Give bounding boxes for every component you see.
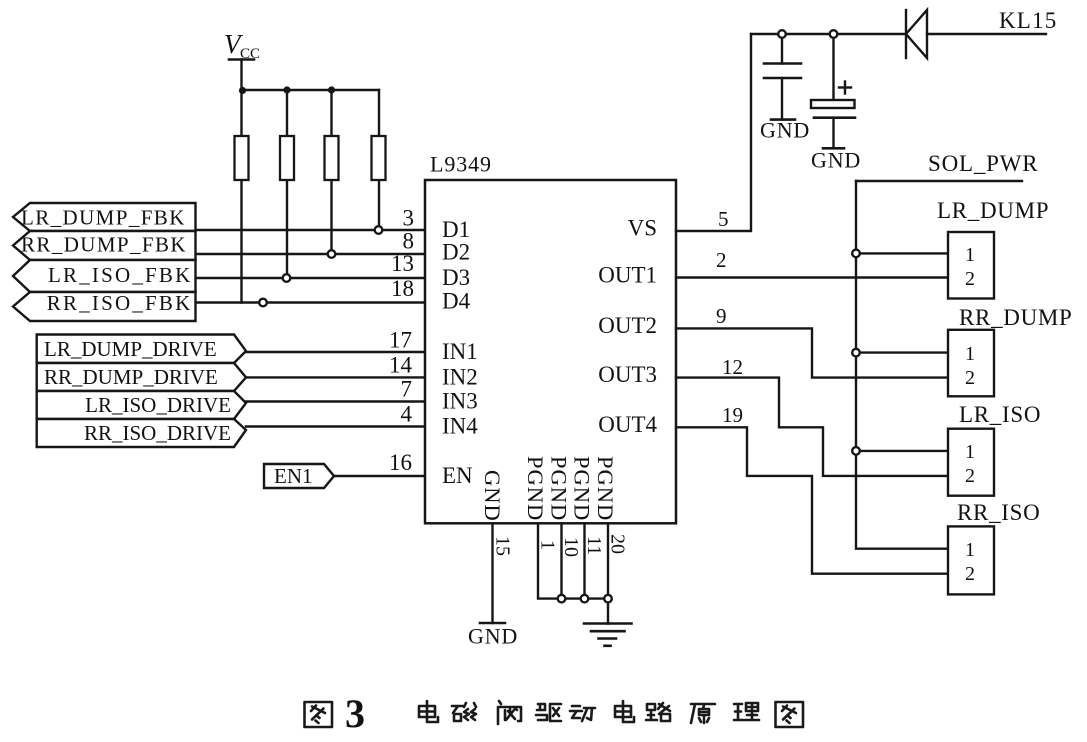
flag RR_DUMP_FBK bbox=[13, 231, 196, 260]
resistor R3 bbox=[325, 136, 339, 180]
resistor R4 bbox=[372, 136, 386, 180]
capacitor C2 polarized bbox=[811, 39, 855, 148]
char yuan (principle) bbox=[691, 704, 715, 723]
char tu (figure) bbox=[305, 702, 333, 727]
svg-text:2: 2 bbox=[965, 563, 975, 585]
junction circle PGND 10 bbox=[558, 595, 566, 603]
flag RR_ISO_FBK bbox=[13, 292, 196, 321]
svg-text:OUT2: OUT2 bbox=[598, 313, 657, 338]
wire VS pin 5 bbox=[676, 34, 751, 231]
wire OUT4 bbox=[676, 427, 948, 573]
junction circle D1 bbox=[375, 226, 383, 234]
wire PGND pin 10 bbox=[560, 523, 562, 598]
svg-text:OUT4: OUT4 bbox=[598, 412, 657, 437]
junction circle bus LR_ISO bbox=[852, 447, 860, 455]
flags left bbox=[13, 203, 334, 488]
bottom grounds bbox=[468, 523, 632, 648]
svg-text:LR_ISO_DRIVE: LR_ISO_DRIVE bbox=[85, 393, 231, 417]
junction circle PGND 20 bbox=[604, 595, 612, 603]
wire D2 bbox=[196, 253, 426, 255]
wire SOL_PWR bus vertical bbox=[856, 181, 948, 549]
svg-text:IN4: IN4 bbox=[442, 414, 478, 439]
svg-text:RR_DUMP: RR_DUMP bbox=[959, 305, 1073, 330]
svg-text:RR_DUMP_FBK: RR_DUMP_FBK bbox=[21, 233, 187, 257]
svg-text:IN1: IN1 bbox=[442, 339, 478, 364]
svg-text:1: 1 bbox=[965, 539, 975, 561]
junction circle bus LR_DUMP bbox=[852, 250, 860, 258]
resistor R1 bbox=[235, 136, 249, 180]
wire OUT3 bbox=[676, 378, 948, 476]
svg-text:2: 2 bbox=[965, 268, 975, 290]
wire D4 bbox=[196, 301, 426, 303]
junction dot bbox=[283, 86, 290, 93]
wire Vcc bbox=[240, 60, 242, 91]
junction circle bus RR_DUMP bbox=[852, 349, 860, 357]
wire top rail bbox=[751, 33, 906, 35]
svg-text:9: 9 bbox=[716, 304, 727, 328]
diode D5 cathode bar bbox=[905, 10, 907, 58]
top right bbox=[676, 8, 1057, 231]
wire resistor column 4 bbox=[378, 90, 380, 230]
svg-text:RR_ISO_FBK: RR_ISO_FBK bbox=[47, 291, 193, 315]
svg-text:5: 5 bbox=[718, 207, 729, 231]
svg-text:3: 3 bbox=[345, 691, 365, 736]
svg-text:7: 7 bbox=[401, 377, 413, 402]
char li (theory) bbox=[734, 703, 759, 720]
junction circle D2 bbox=[328, 250, 336, 258]
svg-text:OUT1: OUT1 bbox=[598, 263, 657, 288]
svg-text:IN2: IN2 bbox=[442, 365, 478, 390]
junction circle C2 bbox=[830, 30, 838, 38]
power symbol Vcc bar bbox=[229, 58, 254, 61]
svg-text:RR_ISO: RR_ISO bbox=[957, 500, 1040, 525]
wire D3 bbox=[196, 277, 426, 279]
power symbol Vcc bbox=[224, 29, 260, 90]
svg-text:SOL_PWR: SOL_PWR bbox=[928, 151, 1038, 176]
junction dot bbox=[239, 87, 246, 94]
wire D1 bbox=[196, 229, 426, 231]
char dian (electric) bbox=[615, 701, 634, 722]
svg-text:LR_DUMP_FBK: LR_DUMP_FBK bbox=[21, 206, 186, 230]
svg-text:GND: GND bbox=[468, 624, 518, 649]
svg-text:D3: D3 bbox=[442, 265, 470, 290]
ground bar C1 bbox=[771, 118, 795, 121]
char fa (valve) bbox=[498, 701, 521, 724]
svg-text:1: 1 bbox=[537, 540, 559, 550]
svg-text:RR_DUMP_DRIVE: RR_DUMP_DRIVE bbox=[44, 365, 218, 389]
wire IN1 bbox=[246, 351, 425, 353]
svg-text:10: 10 bbox=[560, 537, 582, 557]
svg-text:8: 8 bbox=[403, 229, 415, 254]
svg-text:18: 18 bbox=[391, 276, 414, 301]
wire IN4 bbox=[246, 425, 425, 427]
svg-text:1: 1 bbox=[965, 244, 975, 266]
wire PGND pin 1 bbox=[538, 523, 608, 598]
char dian (electric) bbox=[419, 701, 438, 722]
svg-text:GND: GND bbox=[811, 148, 861, 173]
wire KL15 bbox=[927, 33, 1046, 35]
IC U1 L9349 bbox=[425, 152, 676, 524]
svg-text:2: 2 bbox=[716, 248, 727, 272]
svg-text:2: 2 bbox=[965, 465, 975, 487]
svg-text:11: 11 bbox=[583, 536, 605, 555]
svg-text:1: 1 bbox=[965, 343, 975, 365]
wire OUT1 bbox=[676, 276, 948, 278]
svg-text:4: 4 bbox=[401, 402, 413, 427]
svg-text:1: 1 bbox=[965, 441, 975, 463]
svg-text:OUT3: OUT3 bbox=[598, 362, 657, 387]
wire Vcc bus bbox=[242, 89, 380, 91]
junction circle C1 bbox=[778, 30, 786, 38]
svg-text:PGND: PGND bbox=[523, 456, 548, 521]
wire IN3 bbox=[246, 400, 425, 402]
flag LR_DUMP_DRIVE bbox=[37, 335, 246, 364]
svg-text:LR_DUMP_DRIVE: LR_DUMP_DRIVE bbox=[44, 337, 217, 361]
wire resistor column 3 bbox=[330, 90, 332, 254]
flag LR_ISO_DRIVE bbox=[37, 391, 246, 419]
junction circle D4 bbox=[259, 299, 267, 307]
flag RR_ISO_DRIVE bbox=[37, 419, 246, 447]
svg-text:EN1: EN1 bbox=[274, 464, 313, 488]
junction circle D3 bbox=[283, 274, 291, 282]
svg-text:19: 19 bbox=[722, 403, 743, 427]
svg-text:20: 20 bbox=[607, 534, 629, 554]
wire PGND pin 11 bbox=[583, 523, 585, 598]
ground bar GND bbox=[480, 622, 505, 625]
char lu (road) bbox=[646, 703, 670, 721]
caption 图3 电磁阀驱动电路原理图 (hand-drawn strokes) bbox=[305, 691, 804, 736]
svg-text:L9349: L9349 bbox=[430, 152, 492, 177]
flag LR_ISO_FBK bbox=[13, 260, 196, 292]
diode D5 triangle bbox=[906, 10, 927, 58]
svg-text:D1: D1 bbox=[442, 217, 470, 242]
svg-text:IN3: IN3 bbox=[442, 389, 478, 414]
wires top-left bbox=[196, 86, 426, 476]
wire OUT2 bbox=[676, 328, 948, 377]
svg-text:GND: GND bbox=[480, 470, 505, 522]
svg-text:PGND: PGND bbox=[593, 456, 618, 521]
wire GND pin 15 bbox=[491, 523, 493, 623]
svg-text:16: 16 bbox=[389, 450, 412, 475]
wire LR_ISO pin1 bbox=[861, 450, 948, 452]
junction circle PGND 11 bbox=[581, 595, 589, 603]
wire SOL_PWR rail bbox=[856, 180, 1022, 182]
svg-text:LR_DUMP: LR_DUMP bbox=[937, 198, 1049, 223]
capacitor C1 bbox=[764, 39, 801, 120]
svg-text:D4: D4 bbox=[442, 289, 471, 314]
wire EN bbox=[334, 475, 425, 477]
svg-text:D2: D2 bbox=[442, 240, 470, 265]
svg-text:2: 2 bbox=[965, 367, 975, 389]
wire resistor column 2 bbox=[286, 90, 288, 278]
flag RR_DUMP_DRIVE bbox=[37, 363, 246, 391]
flag EN1 bbox=[264, 464, 334, 488]
wire IN2 bbox=[246, 376, 425, 378]
char tu (figure) bbox=[776, 702, 804, 727]
svg-text:RR_ISO_DRIVE: RR_ISO_DRIVE bbox=[84, 421, 231, 445]
svg-text:14: 14 bbox=[389, 353, 413, 378]
flag LR_DUMP_FBK bbox=[13, 203, 196, 231]
wire LR_DUMP pin1 bbox=[861, 252, 948, 254]
svg-text:17: 17 bbox=[389, 328, 412, 353]
svg-text:13: 13 bbox=[391, 251, 414, 276]
earth ground symbol bbox=[584, 624, 632, 646]
junction dot bbox=[328, 86, 335, 93]
svg-text:LR_ISO: LR_ISO bbox=[959, 402, 1041, 427]
svg-text:GND: GND bbox=[760, 118, 810, 143]
svg-text:EN: EN bbox=[442, 463, 473, 488]
svg-text:15: 15 bbox=[492, 536, 514, 556]
char ci (magnet) bbox=[452, 703, 476, 721]
svg-text:KL15: KL15 bbox=[999, 8, 1057, 33]
char qu (drive) bbox=[536, 704, 561, 721]
wire RR_DUMP pin1 bbox=[861, 351, 948, 353]
svg-text:PGND: PGND bbox=[570, 456, 595, 521]
IC body bbox=[425, 180, 676, 523]
ground bar C2 bbox=[823, 147, 844, 150]
resistor R2 bbox=[280, 136, 294, 180]
svg-text:PGND: PGND bbox=[547, 456, 572, 521]
wire resistor column 1 bbox=[240, 90, 242, 303]
connectors right bbox=[676, 151, 1073, 594]
char dong (move) bbox=[570, 706, 595, 721]
svg-text:VS: VS bbox=[628, 216, 657, 241]
svg-text:LR_ISO_FBK: LR_ISO_FBK bbox=[48, 263, 193, 287]
svg-text:12: 12 bbox=[722, 355, 743, 379]
svg-text:3: 3 bbox=[403, 206, 415, 231]
wire PGND pin 20 bbox=[607, 523, 609, 623]
